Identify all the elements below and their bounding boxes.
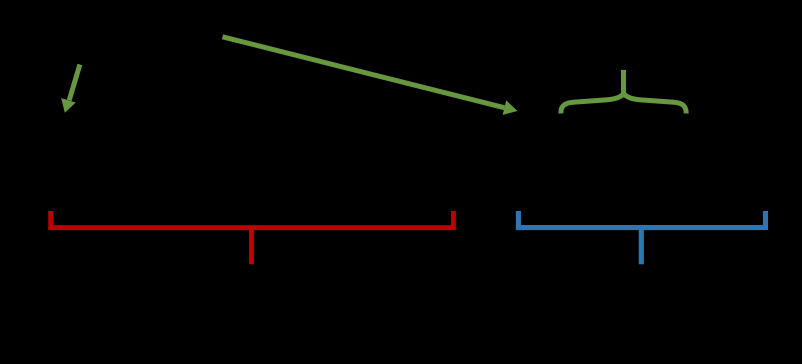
arrow A1: short green arrow pointing down-left <box>61 65 80 113</box>
bracket B3: blue span bracket (right group) <box>518 211 765 264</box>
bracket B2: red span bracket (left group) <box>51 211 454 264</box>
arrow A2: long green arrow from upper middle to lower right <box>223 37 518 115</box>
brace B1: green overbrace with center stem <box>561 70 686 114</box>
